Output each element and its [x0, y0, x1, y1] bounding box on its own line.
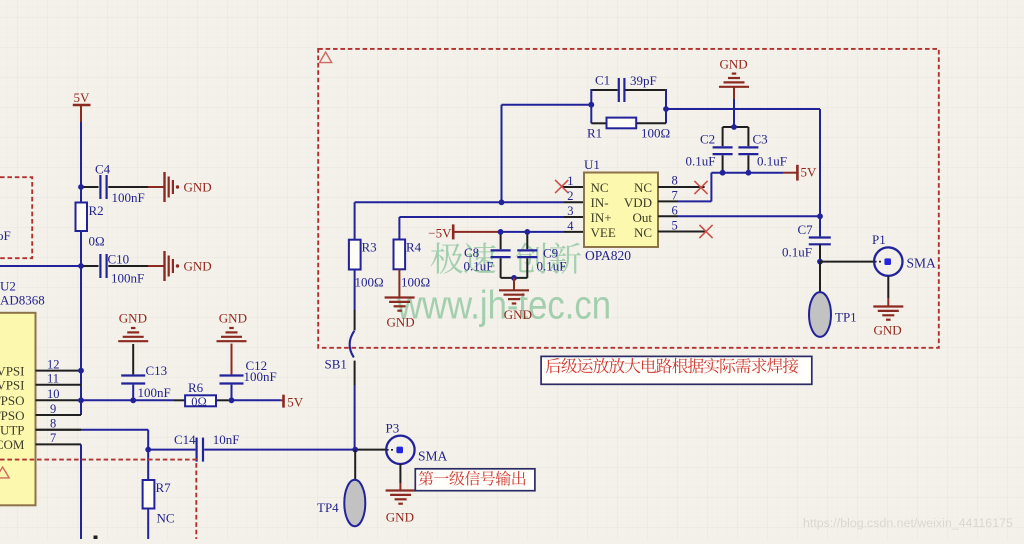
- svg-text:P3: P3: [386, 421, 400, 436]
- svg-text:0.1uF: 0.1uF: [782, 244, 812, 259]
- svg-text:0Ω: 0Ω: [89, 234, 105, 249]
- svg-text:GND: GND: [184, 259, 212, 274]
- svg-text:0.1uF: 0.1uF: [686, 154, 716, 169]
- svg-text:39pF: 39pF: [630, 73, 657, 88]
- svg-text:GND: GND: [386, 510, 414, 525]
- svg-text:C7: C7: [798, 222, 814, 237]
- svg-text:U2: U2: [0, 279, 16, 294]
- svg-text:10: 10: [47, 387, 60, 401]
- svg-text:9: 9: [50, 402, 56, 416]
- svg-text:VPSI: VPSI: [0, 363, 25, 378]
- svg-text:NC: NC: [591, 180, 609, 195]
- svg-text:R1: R1: [587, 126, 602, 141]
- svg-text:0.1uF: 0.1uF: [757, 154, 787, 169]
- svg-text:100nF: 100nF: [244, 369, 277, 384]
- svg-text:100Ω: 100Ω: [355, 275, 384, 290]
- svg-text:GND: GND: [219, 311, 247, 326]
- svg-text:OPA820: OPA820: [585, 248, 631, 263]
- svg-text:IN-: IN-: [591, 195, 609, 210]
- svg-text:UTP: UTP: [0, 423, 25, 438]
- svg-text:12: 12: [47, 357, 60, 371]
- svg-text:3: 3: [567, 204, 573, 218]
- svg-text:4: 4: [567, 219, 574, 233]
- svg-text:0.1uF: 0.1uF: [537, 258, 567, 273]
- svg-text:https://blog.csdn.net/weixin_4: https://blog.csdn.net/weixin_44116175: [803, 516, 1013, 530]
- svg-text:VDD: VDD: [624, 195, 652, 210]
- svg-text:C3: C3: [753, 132, 768, 147]
- svg-text:C13: C13: [146, 363, 168, 378]
- svg-text:Out: Out: [633, 210, 653, 225]
- svg-text:GND: GND: [504, 307, 532, 322]
- svg-text:TPSO: TPSO: [0, 393, 25, 408]
- svg-text:1: 1: [567, 174, 573, 188]
- svg-text:P1: P1: [872, 232, 886, 247]
- svg-text:IN+: IN+: [591, 210, 612, 225]
- svg-text:SMA: SMA: [907, 256, 937, 271]
- svg-text:R2: R2: [89, 203, 104, 218]
- svg-text:GND: GND: [387, 315, 415, 330]
- svg-text:R3: R3: [362, 240, 377, 255]
- svg-text:−5V: −5V: [428, 226, 452, 241]
- svg-text:SMA: SMA: [418, 448, 448, 463]
- svg-text:C10: C10: [108, 252, 130, 267]
- svg-text:C2: C2: [700, 132, 715, 147]
- svg-text:GND: GND: [874, 323, 902, 338]
- svg-text:7: 7: [50, 431, 56, 445]
- svg-text:11: 11: [47, 372, 59, 386]
- svg-text:0.1uF: 0.1uF: [464, 258, 494, 273]
- svg-text:8: 8: [50, 417, 56, 431]
- svg-text:SB1: SB1: [325, 357, 347, 372]
- svg-text:100Ω: 100Ω: [641, 126, 670, 141]
- svg-text:VEE: VEE: [591, 225, 616, 240]
- svg-text:COM: COM: [0, 437, 25, 452]
- svg-text:10nF: 10nF: [213, 432, 240, 447]
- svg-text:C14: C14: [174, 432, 196, 447]
- svg-text:NC: NC: [157, 511, 175, 526]
- svg-text:100nF: 100nF: [112, 190, 145, 205]
- svg-text:C4: C4: [95, 162, 111, 177]
- svg-text:C1: C1: [595, 73, 610, 88]
- svg-text:R4: R4: [406, 240, 422, 255]
- svg-text:TP1: TP1: [835, 310, 857, 325]
- svg-text:5V: 5V: [287, 394, 304, 409]
- svg-text:TPSO: TPSO: [0, 408, 25, 423]
- svg-text:100nF: 100nF: [138, 385, 171, 400]
- svg-text:2: 2: [567, 189, 573, 203]
- svg-text:R7: R7: [156, 480, 172, 495]
- svg-text:5V: 5V: [801, 164, 818, 179]
- svg-text:100nF: 100nF: [111, 271, 144, 286]
- svg-text:100Ω: 100Ω: [401, 275, 430, 290]
- svg-text:AD8368: AD8368: [0, 293, 45, 308]
- svg-text:oF: oF: [0, 228, 11, 243]
- svg-text:GND: GND: [184, 180, 212, 195]
- svg-text:R6: R6: [188, 380, 204, 395]
- svg-text:0Ω: 0Ω: [191, 395, 207, 409]
- svg-text:8: 8: [672, 174, 678, 188]
- svg-text:GND: GND: [119, 311, 147, 326]
- svg-text:5V: 5V: [74, 90, 91, 105]
- svg-text:NC: NC: [634, 225, 652, 240]
- svg-text:TP4: TP4: [317, 500, 339, 515]
- svg-text:U1: U1: [584, 157, 600, 172]
- svg-text:NC: NC: [634, 180, 652, 195]
- svg-text:GND: GND: [720, 57, 748, 72]
- svg-text:VPSI: VPSI: [0, 378, 25, 393]
